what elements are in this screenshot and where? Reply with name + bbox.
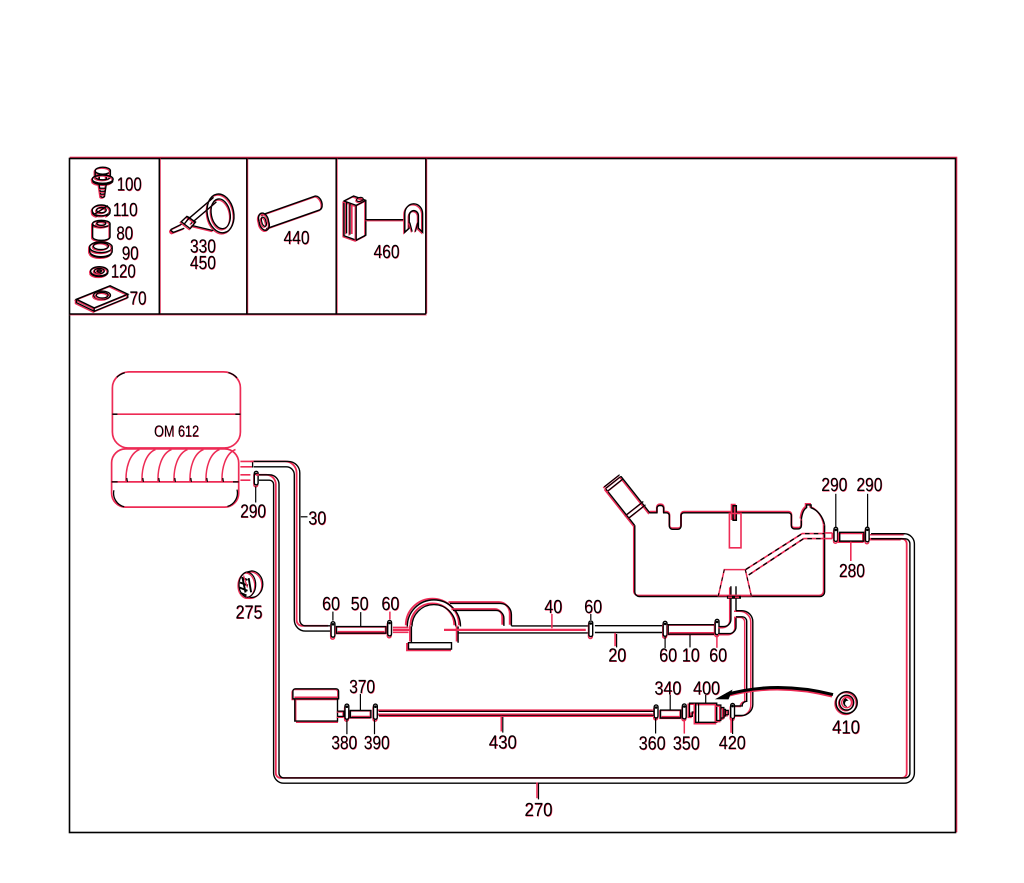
parts box dividers [70, 159, 427, 315]
leader 290 b [867, 494, 869, 527]
label 100 [117, 175, 142, 197]
svg-text:360: 360 [639, 734, 666, 755]
label 400 [693, 678, 720, 700]
wire to clip 460 [366, 220, 405, 221]
label 10 [682, 645, 700, 667]
leader 60 d [664, 637, 666, 648]
label 40 [544, 597, 562, 619]
pipe 20 [595, 626, 664, 633]
leader 370 [359, 694, 361, 710]
tank pickup sump (red) [718, 570, 751, 596]
pipe 30 [251, 461, 332, 631]
leader 270 [537, 782, 539, 799]
frame outer border [70, 158, 957, 833]
leader 380 [346, 720, 348, 734]
label 120 [111, 261, 136, 283]
spring clip 460 [404, 204, 423, 233]
svg-text:380: 380 [331, 733, 357, 754]
clamp 60 e [715, 619, 719, 636]
label 280 [839, 561, 865, 583]
label 50 [351, 594, 369, 616]
label OM 612 [154, 423, 200, 441]
label 430 [489, 732, 517, 754]
svg-text:275: 275 [236, 602, 263, 623]
svg-text:60: 60 [322, 594, 340, 615]
pipe 270 loop [256, 475, 915, 783]
svg-text:40: 40 [544, 597, 562, 618]
fuel filter 400 [688, 703, 728, 723]
svg-text:270: 270 [525, 800, 553, 821]
label 410 [832, 717, 860, 739]
svg-text:100: 100 [117, 175, 142, 196]
label 30 [308, 509, 326, 531]
leader 30 dash [301, 516, 308, 518]
clamp 290 b [865, 527, 869, 544]
engine lower block (red) [112, 449, 239, 507]
svg-text:20: 20 [608, 645, 626, 666]
svg-text:280: 280 [839, 561, 865, 582]
svg-text:50: 50 [351, 594, 369, 615]
svg-text:80: 80 [116, 224, 133, 245]
leader 400 [705, 695, 707, 703]
label 60 d [659, 645, 677, 667]
grommet 275 [238, 571, 263, 599]
label 380 [331, 733, 357, 755]
label 330 [190, 237, 216, 259]
label 110 [113, 200, 138, 222]
label 275 [236, 602, 263, 624]
rubber sleeve 440 [258, 196, 323, 231]
label 460 [374, 242, 400, 264]
svg-text:10: 10 [682, 645, 700, 666]
tank outlet branch to return line [732, 611, 752, 716]
hose 370 [350, 711, 371, 719]
label 290 engine [240, 501, 266, 523]
main line at pump [458, 626, 588, 633]
label 450 [190, 253, 216, 275]
clamp 360 [654, 705, 658, 720]
svg-text:110: 110 [113, 200, 138, 221]
label 60 c [584, 597, 602, 619]
svg-text:60: 60 [659, 645, 677, 666]
svg-text:340: 340 [654, 678, 681, 699]
washer 110 [91, 205, 110, 217]
svg-text:60: 60 [584, 597, 602, 618]
tank outlet elbow to supply line [718, 586, 736, 634]
leader 60 b (red) [389, 612, 391, 620]
tank sender tube (red) [729, 513, 741, 547]
svg-text:440: 440 [284, 228, 310, 249]
clamp 290 at engine [254, 471, 258, 487]
label 390 [364, 733, 390, 755]
svg-text:70: 70 [130, 289, 147, 310]
svg-text:460: 460 [374, 242, 400, 263]
label 440 [284, 228, 310, 250]
svg-text:60: 60 [709, 645, 727, 666]
svg-text:290: 290 [856, 475, 882, 496]
fuel pump dome [406, 599, 461, 651]
hose 10 [667, 625, 715, 635]
fuel cooler box [292, 689, 344, 723]
engine ribs (red) [126, 450, 236, 482]
in-tank fuel pipe (red/black) [746, 534, 825, 575]
svg-text:370: 370 [349, 677, 375, 698]
pipe tank to loop [870, 534, 905, 540]
pump upper pipe [449, 602, 512, 626]
clamp 420 [730, 704, 734, 721]
leader 60 e (red) [716, 635, 718, 647]
leader 50 [360, 612, 362, 626]
svg-text:290: 290 [240, 501, 266, 522]
fuel tank outline [634, 504, 825, 597]
clamp 290 a [834, 527, 838, 543]
filler neck [603, 475, 650, 527]
grommet 410 [835, 692, 857, 715]
pipe stub to pump (red) [393, 627, 411, 632]
leader 360 [655, 719, 657, 734]
plate 70 [75, 286, 127, 312]
leader 430 [501, 716, 503, 733]
spacer 80 [92, 220, 110, 241]
label 60 e [709, 645, 727, 667]
clamp 60 d [663, 621, 667, 638]
leader 340 [669, 695, 671, 710]
coupling 280 [839, 532, 865, 542]
pipe 430 [377, 710, 654, 716]
leader 10 [689, 635, 691, 647]
label 60 a [322, 594, 340, 616]
label 70 [130, 289, 147, 311]
clamp 60 b [387, 620, 391, 637]
leader 60 a [332, 612, 334, 621]
leader 60 c [590, 614, 592, 620]
label 360 [639, 734, 666, 756]
svg-text:430: 430 [489, 732, 517, 753]
svg-text:350: 350 [673, 734, 700, 755]
ring 120 [90, 267, 108, 278]
label 370 [349, 677, 375, 699]
label 420 [719, 733, 746, 755]
leader 20 [615, 633, 617, 648]
channel clip 460 [343, 196, 366, 241]
svg-text:420: 420 [719, 733, 746, 754]
tank bottom grommet [727, 596, 741, 599]
svg-text:290: 290 [821, 475, 847, 496]
hose 340 [660, 710, 681, 719]
leader 290 engine [255, 487, 257, 503]
label 80 [116, 224, 133, 246]
label 20 [608, 645, 626, 667]
leader 290 a [835, 494, 837, 527]
label 350 [673, 734, 700, 756]
hose 50 [336, 627, 386, 634]
cable tie 330/450 [169, 192, 237, 237]
leader 350 (red) [683, 720, 685, 734]
clamp 60 a [331, 622, 335, 639]
leader 420 [731, 718, 733, 734]
svg-text:120: 120 [111, 261, 136, 282]
label 290 a [821, 475, 847, 497]
label 60 b [381, 594, 399, 616]
svg-text:450: 450 [190, 253, 216, 274]
tank sender stub [732, 505, 737, 521]
clamp 390 [373, 704, 377, 721]
leader 280 (red) [850, 542, 852, 561]
label 340 [654, 678, 681, 700]
clamp 380 [345, 704, 349, 721]
svg-text:390: 390 [364, 733, 390, 754]
svg-text:400: 400 [693, 678, 720, 699]
grommet 90 [89, 242, 113, 259]
fuel line 40 (red) [393, 629, 586, 631]
arrow to 400 [717, 688, 833, 699]
svg-text:410: 410 [832, 717, 860, 738]
label 90 [122, 244, 139, 266]
svg-text:OM 612: OM 612 [154, 423, 199, 440]
svg-text:30: 30 [308, 509, 326, 530]
clamp 60 c [589, 621, 593, 639]
clamp 350 [682, 704, 686, 721]
label 270 [525, 800, 553, 822]
tank outlet stub (red) [825, 533, 832, 539]
svg-text:60: 60 [381, 594, 399, 615]
engine block outline (red) [112, 372, 240, 448]
leader 390 [374, 720, 376, 734]
leader 40 (red) [551, 614, 553, 628]
engine fuel stub upper (red) [240, 461, 252, 468]
engine fuel stub lower (red) [240, 475, 250, 480]
bolt 100 [91, 167, 113, 198]
label 290 b [856, 475, 882, 497]
